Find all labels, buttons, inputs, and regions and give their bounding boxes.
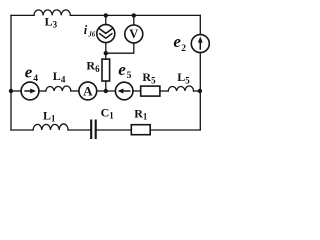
wire L1 to C1 bbox=[68, 129, 90, 131]
wire top-left segment bbox=[11, 14, 34, 16]
wire ammeter to e5 bbox=[97, 90, 116, 92]
wire right side upper bbox=[199, 15, 201, 34]
wire right side lower bbox=[199, 53, 201, 130]
svg-text:5: 5 bbox=[127, 71, 132, 81]
wire L5 to right wire bbox=[194, 90, 201, 92]
node dot middle row center bbox=[104, 89, 108, 93]
wire e4 to L4 bbox=[39, 90, 46, 92]
svg-text:2: 2 bbox=[181, 44, 186, 54]
node dot left wire bbox=[9, 89, 13, 93]
svg-text:e: e bbox=[25, 63, 33, 82]
iJ6 double chevron bbox=[99, 29, 112, 39]
wire L4 to ammeter bbox=[71, 90, 79, 92]
node dot below iJ6 bbox=[104, 51, 108, 55]
resistor R5 box bbox=[141, 86, 160, 96]
resistor R1 box bbox=[131, 125, 150, 135]
wire middle row: left wire to e4 bbox=[11, 90, 21, 92]
wire V meter bottom to node bbox=[106, 43, 134, 53]
svg-text:4: 4 bbox=[33, 74, 38, 84]
inductor L3 bbox=[34, 10, 70, 16]
wire left side bbox=[10, 15, 12, 130]
wire C1 to R1 bbox=[97, 129, 131, 131]
wire R6 bottom to middle row bbox=[105, 81, 107, 91]
wire top-right segment bbox=[70, 14, 200, 16]
svg-text:e: e bbox=[118, 60, 126, 79]
arrow of e5 (left) bbox=[118, 89, 131, 94]
inductor L5 bbox=[168, 86, 193, 91]
svg-text:J6: J6 bbox=[87, 31, 95, 38]
source e5 circle bbox=[115, 82, 133, 100]
wire e5 to R5 bbox=[133, 90, 141, 92]
svg-text:V: V bbox=[129, 27, 138, 41]
voltmeter V circle bbox=[125, 25, 143, 43]
inductor L1 bbox=[33, 124, 68, 130]
source e4 circle bbox=[21, 82, 39, 100]
capacitor C1 bbox=[91, 120, 96, 140]
arrow of e2 (up) bbox=[198, 37, 203, 50]
current source iJ6 circle bbox=[97, 25, 115, 43]
svg-text:i: i bbox=[84, 23, 88, 37]
wire iJ6 to R6 via node bbox=[105, 43, 107, 60]
wire R5 to L5 bbox=[160, 90, 168, 92]
node dot top left bbox=[104, 13, 108, 17]
inductor L4 bbox=[46, 86, 71, 91]
svg-text:A: A bbox=[83, 83, 93, 98]
node dot top right bbox=[132, 13, 136, 17]
arrow of e4 (right) bbox=[24, 89, 36, 94]
source e2 circle bbox=[191, 35, 209, 53]
wire stem top to V meter bbox=[133, 15, 135, 25]
wire stem top to iJ6 bbox=[105, 15, 107, 24]
resistor R6 box bbox=[102, 59, 110, 81]
wire R1 to bottom-right corner bbox=[150, 129, 200, 131]
wire bottom-left segment bbox=[11, 129, 33, 131]
svg-text:e: e bbox=[173, 32, 181, 51]
ammeter A circle bbox=[79, 82, 97, 100]
node dot right wire bbox=[198, 89, 202, 93]
